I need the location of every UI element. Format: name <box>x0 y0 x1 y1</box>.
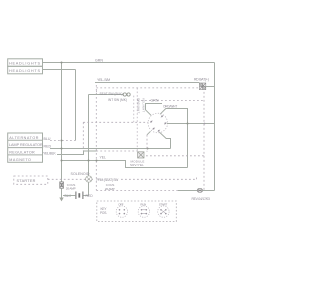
svg-text:ORG/WHT: ORG/WHT <box>163 104 177 108</box>
dashed console box right edge <box>203 88 205 190</box>
fuse F1 <box>199 83 205 90</box>
node RED x147 <box>147 148 149 150</box>
svg-text:LAMP REGULATOR: LAMP REGULATOR <box>9 143 43 147</box>
svg-text:BLU: BLU <box>44 137 51 141</box>
node at 187 <box>187 123 189 125</box>
connector K1 box <box>138 152 144 158</box>
svg-text:PRM (SEAT) SW: PRM (SEAT) SW <box>97 178 119 182</box>
svg-text:HEADLIGHTS: HEADLIGHTS <box>9 69 41 73</box>
headlight 1 box <box>8 59 43 67</box>
svg-text:SRV/YEL: SRV/YEL <box>130 163 144 167</box>
dashed harness wire y179 <box>48 178 93 180</box>
connector at right bottom <box>197 188 202 192</box>
wire solenoid to battery <box>88 183 90 196</box>
harness cluster dashed verticals <box>133 96 135 123</box>
svg-text:20 AMP: 20 AMP <box>105 187 115 191</box>
wire vertical x75 <box>75 70 77 141</box>
svg-text:YEL/BLK: YEL/BLK <box>43 152 56 156</box>
svg-text:STARTER: STARTER <box>17 179 36 183</box>
dashed console box top edge <box>96 87 199 89</box>
svg-text:YEL: YEL <box>100 156 107 160</box>
dashed key wire y103 <box>137 100 205 102</box>
svg-text:RUN: RUN <box>140 203 146 207</box>
dashed wire y151 to connector <box>96 150 137 152</box>
node bus x61 <box>61 160 63 162</box>
connector J1 pins <box>123 93 126 96</box>
svg-text:RD BAT(+): RD BAT(+) <box>194 78 209 82</box>
svg-text:REV-04/17/03: REV-04/17/03 <box>192 197 210 201</box>
key position circle START <box>158 206 169 217</box>
node bus x88 <box>88 160 90 162</box>
engine component box stack <box>8 133 43 162</box>
dashed wire vertical x83 <box>82 122 84 151</box>
dashed wire y156 to right <box>146 155 205 157</box>
tick above seat line <box>96 91 98 95</box>
svg-text:HEADLIGHTS: HEADLIGHTS <box>9 61 41 65</box>
ground arrow <box>59 198 63 202</box>
ignition switch body wires <box>146 104 163 116</box>
svg-text:INT SW (MK): INT SW (MK) <box>108 98 127 102</box>
dashed console box left edge <box>95 85 97 190</box>
wire switch SW diagonal <box>147 131 151 135</box>
svg-text:GRN: GRN <box>95 58 103 62</box>
wire vertical x61 <box>61 63 63 182</box>
wire breaker to ground <box>61 188 63 197</box>
solenoid S1 <box>86 176 92 182</box>
key positions box <box>97 201 177 222</box>
circuit breaker CB1 <box>60 182 64 189</box>
svg-text:ORG/WHT: ORG/WHT <box>136 98 140 114</box>
dashed wire y122 to switch <box>83 121 148 123</box>
dashed wire BLU <box>50 140 75 142</box>
wire GRN top horizontal <box>43 62 215 64</box>
wire RED horizontal <box>50 148 171 150</box>
wire solenoid feed vertical x88 <box>88 95 90 176</box>
wire YEL horizontal <box>57 151 97 155</box>
svg-text:20 AMP: 20 AMP <box>66 187 76 191</box>
svg-text:YEL/WHT: YEL/WHT <box>141 98 145 113</box>
svg-text:SOLENOID: SOLENOID <box>71 172 90 176</box>
svg-text:MAGNETO: MAGNETO <box>9 158 31 162</box>
node bus x96 <box>96 160 98 162</box>
node at 204 <box>204 123 206 125</box>
svg-text:GRN: GRN <box>151 98 159 102</box>
svg-text:YEL-S/M: YEL-S/M <box>97 78 110 82</box>
dashed console box bottom edge <box>96 190 178 192</box>
key position circle RUN <box>138 206 149 217</box>
wire YEL-S/M horizontal <box>95 82 199 84</box>
wire connector to corner <box>203 190 215 192</box>
wire headlight2 horizontal <box>43 69 76 71</box>
wire switch E to right rail <box>167 123 215 125</box>
wire right vertical battery feed <box>214 63 216 191</box>
svg-text:OFF: OFF <box>118 203 124 207</box>
ignition switch circle U1 <box>148 113 168 133</box>
node junction 61,62 <box>61 62 63 64</box>
starter box dashed <box>14 176 48 184</box>
wire seat switch horizontal <box>89 94 124 96</box>
node BLU x61 <box>61 140 63 142</box>
headlight 2 box <box>8 66 43 74</box>
svg-text:RED: RED <box>44 144 52 148</box>
wire fuse to right rail <box>206 86 215 88</box>
svg-text:BLK: BLK <box>65 194 72 198</box>
dashed wire x147 down <box>146 135 148 152</box>
node RED x61 <box>61 148 63 150</box>
svg-text:RED: RED <box>86 194 94 198</box>
battery BT1 <box>63 195 75 197</box>
svg-text:REGULATOR: REGULATOR <box>9 151 35 155</box>
switch terminals <box>150 115 166 131</box>
svg-text:SEAT SW (BLK): SEAT SW (BLK) <box>100 92 123 96</box>
svg-text:START: START <box>159 203 168 207</box>
wire switch S path <box>160 132 171 148</box>
svg-text:POS.: POS. <box>100 211 107 215</box>
wire ground bus y160.7 <box>62 161 188 168</box>
key position circle OFF <box>116 206 127 217</box>
dashed hook at 196 <box>196 176 198 179</box>
svg-text:ALTERNATOR: ALTERNATOR <box>9 136 39 140</box>
